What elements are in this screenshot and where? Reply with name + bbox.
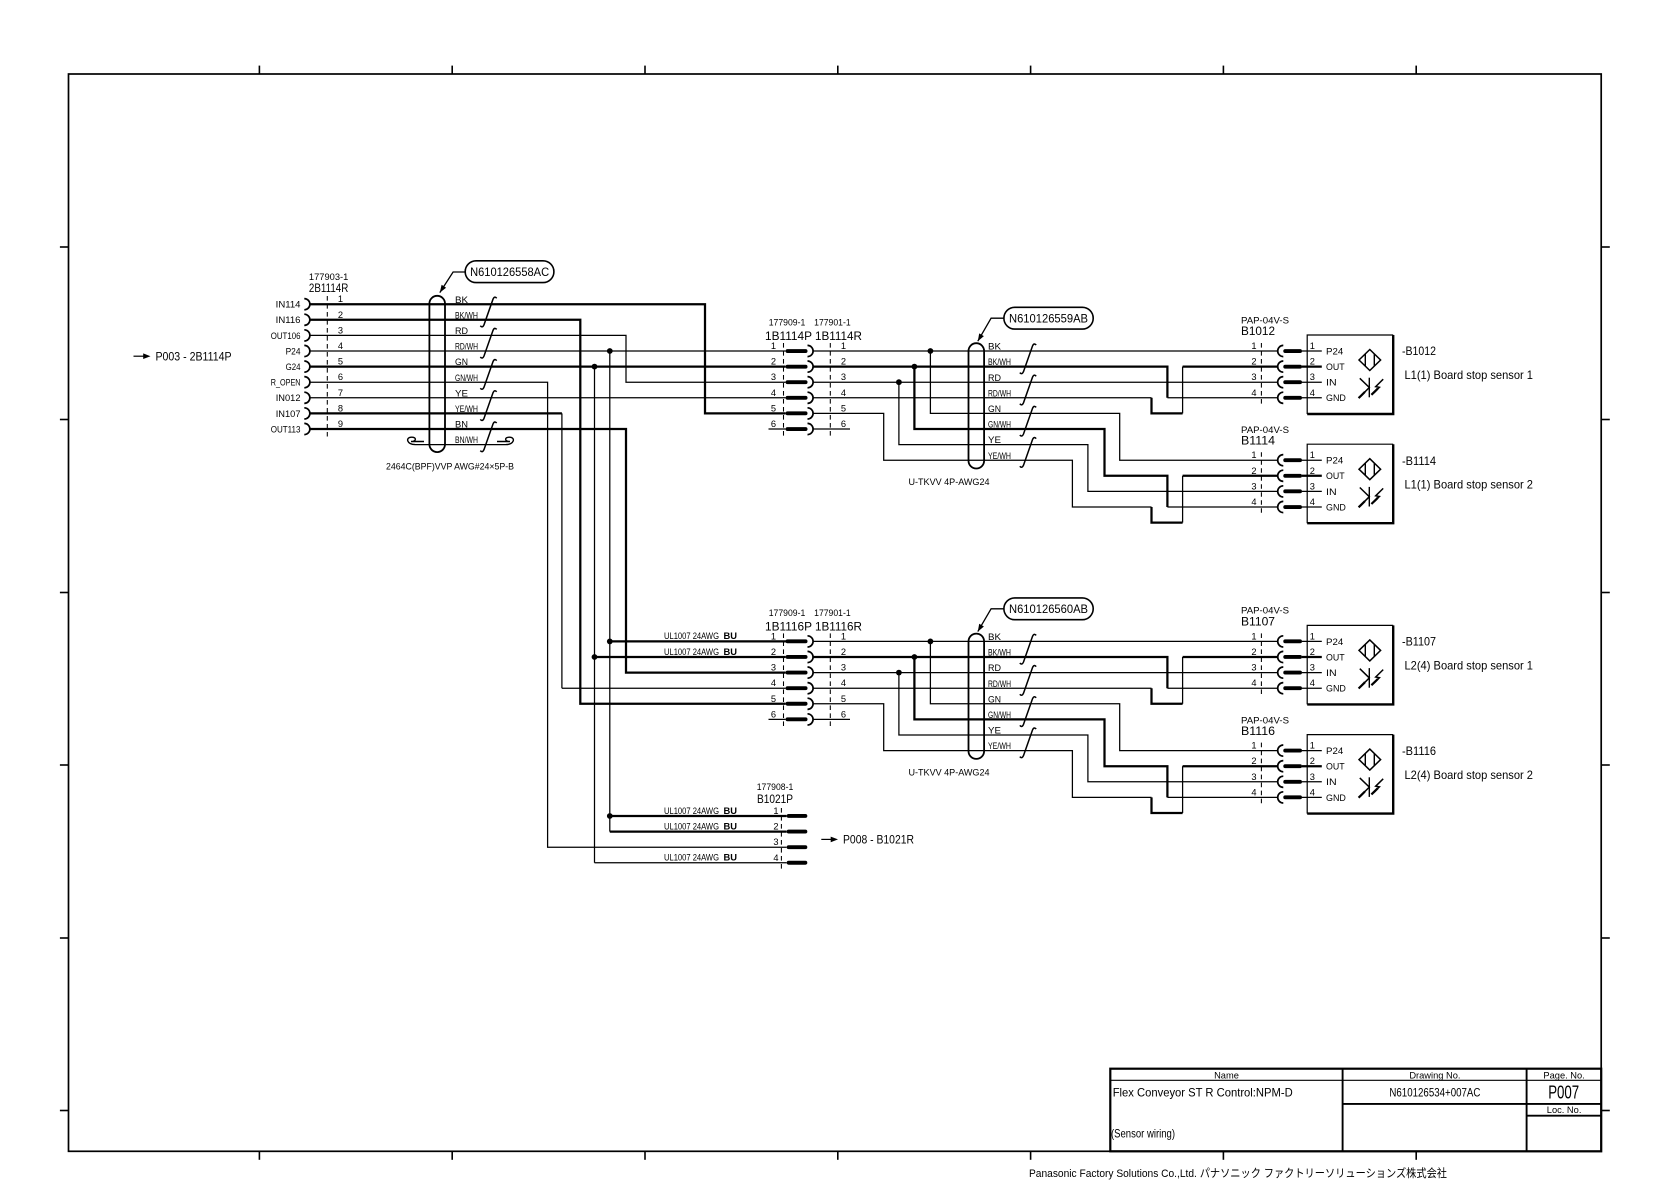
cable shield oval N610126559AB [969, 343, 985, 468]
svg-text:3: 3 [1251, 663, 1256, 673]
svg-text:P24: P24 [1326, 346, 1343, 356]
svg-text:OUT113: OUT113 [271, 424, 301, 434]
photoelectric sensor symbol (diamond) [1359, 350, 1381, 371]
wire color labels of cable N610126560AB [988, 632, 1011, 751]
wire P24: 2B1114R pin4 to 1B1114P pin1, 1B1116P pin1, B1021P pins 1-2 [310, 348, 787, 831]
svg-text:2: 2 [1251, 756, 1256, 766]
connector B1021P (177908-1) 4-pin plug [757, 782, 808, 871]
svg-text:3: 3 [1251, 372, 1256, 382]
svg-text:4: 4 [1310, 787, 1315, 797]
cable label N610126558AC with leader [440, 261, 554, 293]
svg-text:YE: YE [988, 435, 1001, 445]
svg-text:G24: G24 [286, 362, 301, 372]
svg-text:4: 4 [1251, 388, 1256, 398]
svg-text:GN: GN [455, 357, 468, 367]
wire YE/WH from pin5 (OUT wire to second sensor) [813, 413, 1278, 522]
sensor box -B1116 [1307, 735, 1393, 814]
svg-text:3: 3 [841, 663, 846, 673]
sensor box -B1114 [1307, 444, 1393, 523]
unterminated drain wire BN/WH with curled ends [408, 437, 514, 444]
svg-text:PAP-04V-S: PAP-04V-S [1241, 715, 1289, 725]
svg-text:UL1007 24AWG: UL1007 24AWG [664, 631, 719, 641]
svg-text:2: 2 [1310, 647, 1315, 657]
photoelectric sensor symbol (diamond) [1359, 749, 1381, 770]
svg-text:4: 4 [773, 853, 778, 863]
sensor connector B1114 (PAP-04V-S) [1241, 425, 1346, 515]
wire OUT106: 2B1114R pin3 to 1B1114P pin3 [310, 335, 786, 382]
svg-text:BK: BK [988, 342, 1002, 352]
svg-text:4: 4 [771, 388, 776, 398]
svg-text:1: 1 [841, 631, 846, 641]
svg-text:2: 2 [1310, 357, 1315, 367]
svg-text:BU: BU [724, 853, 738, 863]
svg-text:3: 3 [771, 372, 776, 382]
svg-text:177909-1: 177909-1 [769, 608, 806, 618]
light receiver symbol with incident-light arrows [1359, 378, 1384, 398]
svg-text:3: 3 [1310, 663, 1315, 673]
svg-text:2: 2 [771, 357, 776, 367]
svg-text:P24: P24 [286, 346, 301, 356]
svg-text:B1107: B1107 [1241, 615, 1275, 628]
svg-text:GN: GN [988, 694, 1001, 704]
photoelectric sensor symbol (diamond) [1359, 640, 1381, 661]
wire labels UL1007 24AWG BU at 1B1116P pins 1-2 [664, 631, 737, 657]
svg-text:4: 4 [771, 678, 776, 688]
svg-text:U-TKVV 4P-AWG24: U-TKVV 4P-AWG24 [909, 766, 990, 777]
wire RD and YE branch (IN wires) [813, 670, 1278, 782]
svg-text:P007: P007 [1548, 1083, 1579, 1103]
svg-text:YE: YE [455, 388, 468, 398]
svg-text:-B1012: -B1012 [1402, 344, 1436, 358]
svg-text:5: 5 [338, 357, 343, 367]
wire BK/WH and GN/WH branch (GND wires) [813, 654, 1278, 797]
svg-text:IN107: IN107 [276, 409, 301, 419]
wire RD/WH (OUT wire to first sensor) [813, 657, 1278, 704]
svg-text:P008 - B1021R: P008 - B1021R [843, 833, 914, 847]
svg-text:-B1114: -B1114 [1402, 454, 1436, 468]
svg-text:7: 7 [338, 388, 343, 398]
svg-text:YE: YE [988, 726, 1001, 736]
svg-text:RD/WH: RD/WH [988, 679, 1011, 689]
svg-text:1: 1 [1251, 341, 1256, 351]
svg-text:9: 9 [338, 419, 343, 429]
svg-text:6: 6 [841, 709, 846, 719]
svg-text:R_OPEN: R_OPEN [271, 378, 301, 388]
svg-text:Drawing No.: Drawing No. [1409, 1071, 1460, 1081]
svg-text:N610126534+007AC: N610126534+007AC [1389, 1086, 1480, 1100]
cable shield oval N610126560AB [969, 634, 985, 759]
connector 2B1114R (177903-1) 9-pin receptacle [271, 272, 349, 436]
svg-text:OUT: OUT [1326, 362, 1345, 372]
light receiver symbol with incident-light arrows [1359, 668, 1384, 688]
sensor box -B1012 [1307, 335, 1393, 414]
svg-text:BU: BU [724, 631, 738, 641]
svg-text:(Sensor wiring): (Sensor wiring) [1111, 1127, 1175, 1141]
label P008 destination arrow [821, 833, 914, 847]
svg-text:4: 4 [338, 341, 343, 351]
svg-text:N610126559AB: N610126559AB [1009, 312, 1088, 326]
svg-text:IN: IN [1326, 777, 1337, 787]
svg-text:YE/WH: YE/WH [455, 404, 478, 414]
svg-text:3: 3 [841, 372, 846, 382]
svg-text:P24: P24 [1326, 637, 1343, 647]
cable label N610126560AB with leader [978, 598, 1093, 632]
svg-text:P24: P24 [1326, 456, 1343, 466]
svg-text:BU: BU [724, 647, 738, 657]
light receiver symbol with incident-light arrows [1359, 487, 1384, 507]
svg-text:UL1007 24AWG: UL1007 24AWG [664, 647, 719, 657]
svg-text:5: 5 [841, 403, 846, 413]
svg-text:GND: GND [1326, 793, 1346, 803]
svg-text:Page. No.: Page. No. [1543, 1071, 1584, 1081]
svg-text:P24: P24 [1326, 746, 1343, 756]
svg-text:1B1114R: 1B1114R [815, 330, 862, 343]
svg-text:2: 2 [1251, 357, 1256, 367]
svg-text:BU: BU [724, 806, 738, 816]
svg-text:N610126558AC: N610126558AC [470, 265, 549, 279]
svg-text:OUT106: OUT106 [271, 331, 301, 341]
svg-text:6: 6 [771, 419, 776, 429]
svg-text:IN116: IN116 [276, 315, 301, 325]
svg-text:-B1116: -B1116 [1402, 744, 1436, 758]
svg-text:OUT: OUT [1326, 471, 1345, 481]
svg-text:PAP-04V-S: PAP-04V-S [1241, 606, 1289, 616]
svg-text:4: 4 [1251, 497, 1256, 507]
label P003 destination arrow [134, 349, 232, 363]
svg-text:1: 1 [771, 631, 776, 641]
svg-text:1: 1 [1310, 741, 1315, 751]
svg-text:1: 1 [771, 341, 776, 351]
svg-text:4: 4 [1251, 787, 1256, 797]
wire BK/WH and GN/WH branch (GND wires) [813, 364, 1278, 507]
svg-text:2: 2 [1310, 466, 1315, 476]
twisted pair marks cable N610126559AB [1020, 344, 1036, 467]
svg-text:OUT: OUT [1326, 762, 1345, 772]
svg-text:177903-1: 177903-1 [309, 272, 348, 282]
svg-text:OUT: OUT [1326, 652, 1345, 662]
svg-text:4: 4 [1310, 388, 1315, 398]
svg-text:1: 1 [841, 341, 846, 351]
sensor connector B1012 (PAP-04V-S) [1241, 315, 1346, 406]
wire BK: feeds N610126560AB sensors pin1 (P24) [813, 639, 1278, 751]
wire BK: feeds N610126559AB sensors pin1 (P24) [813, 348, 1278, 460]
svg-text:IN114: IN114 [276, 300, 301, 310]
svg-text:2: 2 [1310, 756, 1315, 766]
connector pair 1B1116P (177909-1) / 1B1116R (177901-1) [765, 608, 862, 728]
svg-text:2: 2 [841, 647, 846, 657]
svg-text:UL1007 24AWG: UL1007 24AWG [664, 821, 719, 831]
connector pair 1B1114P (177909-1) / 1B1114R (177901-1) [765, 318, 862, 438]
svg-text:3: 3 [338, 325, 343, 335]
svg-text:YE/WH: YE/WH [988, 741, 1011, 751]
svg-text:5: 5 [841, 694, 846, 704]
sensor connector B1116 (PAP-04V-S) [1241, 715, 1346, 805]
svg-text:4: 4 [841, 678, 846, 688]
svg-text:6: 6 [841, 419, 846, 429]
svg-text:RD/WH: RD/WH [455, 342, 478, 352]
svg-text:B1021P: B1021P [757, 793, 793, 806]
svg-text:4: 4 [1310, 678, 1315, 688]
svg-text:BK/WH: BK/WH [455, 310, 478, 320]
wire color labels of cable N610126558AC [455, 295, 478, 445]
svg-text:RD/WH: RD/WH [988, 388, 1011, 398]
wire IN012: 2B1114R pin7 to 1B1114P pin4 [310, 397, 786, 399]
svg-text:4: 4 [1251, 678, 1256, 688]
svg-text:GN/WH: GN/WH [455, 373, 478, 383]
svg-text:L2(4) Board stop sensor 2: L2(4) Board stop sensor 2 [1405, 769, 1534, 782]
twisted pair marks cable N610126558AC [480, 297, 496, 451]
svg-text:177909-1: 177909-1 [769, 318, 806, 328]
wire IN107: 2B1114R pin8 to 1B1116P pin4 [310, 413, 786, 688]
svg-text:1: 1 [1310, 341, 1315, 351]
photoelectric sensor symbol (diamond) [1359, 459, 1381, 480]
cable label N610126559AB with leader [978, 307, 1093, 341]
svg-text:L1(1) Board stop sensor 2: L1(1) Board stop sensor 2 [1405, 479, 1534, 492]
svg-text:BU: BU [724, 821, 738, 831]
svg-text:1B1116R: 1B1116R [815, 620, 862, 633]
twisted pair marks cable N610126560AB [1020, 634, 1036, 757]
svg-text:8: 8 [338, 403, 343, 413]
svg-text:Flex Conveyor ST R Control:NPM: Flex Conveyor ST R Control:NPM-D [1113, 1086, 1293, 1100]
wire OUT113: 2B1114R pin9 to 1B1116P pin3 [310, 429, 786, 673]
svg-text:PAP-04V-S: PAP-04V-S [1241, 425, 1289, 435]
svg-text:RD: RD [988, 663, 1001, 673]
svg-text:2B1114R: 2B1114R [309, 282, 348, 295]
svg-text:Panasonic Factory Solutions Co: Panasonic Factory Solutions Co.,Ltd. パナソ… [1029, 1166, 1447, 1180]
svg-text:IN: IN [1326, 668, 1337, 678]
svg-text:IN012: IN012 [276, 393, 301, 403]
svg-text:3: 3 [1310, 372, 1315, 382]
svg-text:1: 1 [1310, 450, 1315, 460]
svg-text:BN: BN [455, 420, 468, 430]
wire labels UL1007 24AWG BU at B1021P pins 1,2,4 [664, 806, 737, 863]
svg-text:GND: GND [1326, 393, 1346, 403]
svg-text:BK: BK [988, 632, 1002, 642]
svg-text:2: 2 [841, 357, 846, 367]
svg-text:6: 6 [338, 372, 343, 382]
svg-text:RD: RD [988, 373, 1001, 383]
svg-text:3: 3 [1251, 772, 1256, 782]
svg-text:GN/WH: GN/WH [988, 420, 1011, 430]
svg-text:2: 2 [338, 310, 343, 320]
svg-text:L2(4) Board stop sensor 1: L2(4) Board stop sensor 1 [1405, 659, 1534, 672]
wire color labels of cable N610126559AB [988, 342, 1011, 461]
svg-text:1: 1 [1251, 450, 1256, 460]
svg-text:4: 4 [1310, 497, 1315, 507]
svg-text:-B1107: -B1107 [1402, 635, 1436, 649]
svg-text:GN: GN [988, 404, 1001, 414]
svg-text:YE/WH: YE/WH [988, 451, 1011, 461]
wire RD/WH (OUT wire to first sensor) [813, 367, 1278, 414]
svg-text:IN: IN [1326, 378, 1337, 388]
svg-text:PAP-04V-S: PAP-04V-S [1241, 315, 1289, 325]
svg-text:1: 1 [773, 806, 778, 816]
svg-text:3: 3 [771, 663, 776, 673]
svg-text:N610126560AB: N610126560AB [1009, 602, 1088, 616]
wire YE/WH from pin5 (OUT wire to second sensor) [813, 704, 1278, 813]
svg-text:BK: BK [455, 295, 469, 305]
svg-text:2: 2 [1251, 466, 1256, 476]
svg-text:GND: GND [1326, 502, 1346, 512]
title block [1110, 1069, 1601, 1152]
sensor connector B1107 (PAP-04V-S) [1241, 606, 1346, 697]
svg-text:3: 3 [1251, 481, 1256, 491]
svg-text:177908-1: 177908-1 [757, 782, 794, 792]
svg-text:P003 - 2B1114P: P003 - 2B1114P [156, 349, 232, 363]
svg-text:GND: GND [1326, 684, 1346, 694]
svg-text:4: 4 [841, 388, 846, 398]
wire G24: 2B1114R pin5 to 1B1114P pin2, 1B1116P pin2, B1021P pin4 [310, 364, 787, 863]
svg-text:1: 1 [1251, 631, 1256, 641]
wire RD and YE branch (IN wires) [813, 379, 1278, 491]
svg-text:U-TKVV 4P-AWG24: U-TKVV 4P-AWG24 [909, 476, 990, 487]
svg-text:GN/WH: GN/WH [988, 710, 1011, 720]
svg-text:6: 6 [771, 709, 776, 719]
svg-text:BK/WH: BK/WH [988, 648, 1011, 658]
svg-text:UL1007 24AWG: UL1007 24AWG [664, 806, 719, 816]
svg-text:177901-1: 177901-1 [814, 318, 851, 328]
svg-text:BN/WH: BN/WH [455, 435, 478, 445]
svg-text:5: 5 [771, 694, 776, 704]
cable shield oval N610126558AC [429, 296, 445, 452]
svg-text:1: 1 [1251, 741, 1256, 751]
svg-text:BK/WH: BK/WH [988, 357, 1011, 367]
wire IN116: 2B1114R pin2 to 1B1116P pin5 [310, 320, 786, 704]
svg-text:3: 3 [1310, 481, 1315, 491]
svg-text:Loc. No.: Loc. No. [1547, 1105, 1582, 1115]
light receiver symbol with incident-light arrows [1359, 777, 1384, 797]
svg-text:Name: Name [1214, 1071, 1239, 1081]
svg-text:B1012: B1012 [1241, 325, 1275, 338]
svg-text:3: 3 [773, 837, 778, 847]
svg-text:B1116: B1116 [1241, 725, 1275, 738]
svg-text:2: 2 [771, 647, 776, 657]
svg-text:UL1007 24AWG: UL1007 24AWG [664, 853, 719, 863]
svg-text:1: 1 [1310, 631, 1315, 641]
svg-text:B1114: B1114 [1241, 435, 1276, 448]
svg-text:1: 1 [338, 294, 343, 304]
svg-text:177901-1: 177901-1 [814, 608, 851, 618]
svg-text:2464C(BPF)VVP AWG#24×5P-B: 2464C(BPF)VVP AWG#24×5P-B [386, 461, 514, 472]
svg-text:2: 2 [1251, 647, 1256, 657]
svg-text:5: 5 [771, 403, 776, 413]
svg-text:RD: RD [455, 326, 468, 336]
svg-text:2: 2 [773, 822, 778, 832]
wire IN114: 2B1114R pin1 to 1B1114P pin5 [310, 304, 786, 413]
svg-text:3: 3 [1310, 772, 1315, 782]
svg-text:L1(1) Board stop sensor 1: L1(1) Board stop sensor 1 [1405, 369, 1534, 382]
svg-text:IN: IN [1326, 487, 1337, 497]
sensor box -B1107 [1307, 625, 1393, 704]
wire R_OPEN: 2B1114R pin6 to B1021P pin3 [310, 382, 787, 847]
